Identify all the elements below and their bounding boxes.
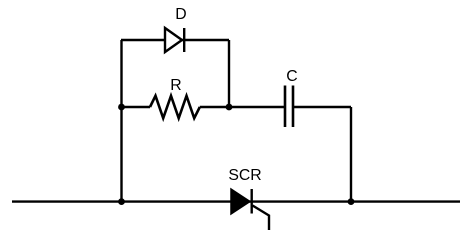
wire resistor to capacitor: [200, 106, 285, 108]
junction dot bottom left: [118, 198, 125, 205]
wire top (diode branch): [121, 39, 229, 41]
wire right vertical (diode branch to resistor node): [228, 40, 230, 107]
capacitor C: [285, 86, 293, 128]
SCR Q1: [231, 189, 269, 230]
junction dot bottom right: [348, 198, 355, 205]
junction dot node B (right, resistor row): [226, 104, 233, 111]
junction dot node A (left, resistor row): [118, 104, 125, 111]
resistor R: [150, 96, 200, 118]
wire resistor row left (node A to resistor): [122, 106, 151, 108]
svg-text:D: D: [175, 6, 186, 23]
svg-text:R: R: [170, 77, 181, 94]
wire right drop to bottom rail: [350, 107, 352, 202]
wire capacitor to right corner: [293, 106, 351, 108]
wire bottom rail: [12, 200, 460, 202]
svg-text:SCR: SCR: [228, 167, 261, 184]
wire left vertical: [120, 40, 122, 202]
diode D: [165, 28, 184, 52]
svg-text:C: C: [286, 68, 297, 85]
